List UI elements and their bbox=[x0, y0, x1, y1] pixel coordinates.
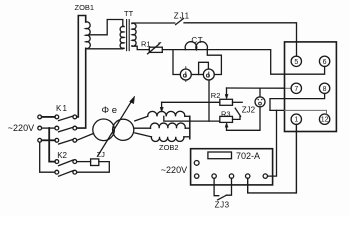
svg-text:R1: R1 bbox=[141, 40, 151, 49]
svg-text:ZJ2: ZJ2 bbox=[242, 106, 256, 115]
svg-text:R2: R2 bbox=[211, 91, 221, 100]
svg-text:~220V: ~220V bbox=[8, 123, 34, 133]
svg-text:~220V: ~220V bbox=[161, 165, 187, 175]
svg-text:ZOB1: ZOB1 bbox=[75, 3, 95, 12]
svg-text:R3: R3 bbox=[221, 110, 231, 119]
svg-text:7: 7 bbox=[294, 86, 298, 93]
svg-text:Φ e: Φ e bbox=[102, 105, 118, 116]
svg-text:5: 5 bbox=[294, 59, 298, 66]
svg-text:12: 12 bbox=[321, 117, 329, 124]
svg-text:6: 6 bbox=[323, 59, 327, 66]
svg-text:TT: TT bbox=[124, 9, 134, 18]
svg-text:ZOB2: ZOB2 bbox=[159, 143, 179, 152]
svg-text:1: 1 bbox=[294, 117, 298, 124]
svg-text:K1: K1 bbox=[56, 104, 68, 113]
svg-text:K2: K2 bbox=[57, 151, 67, 160]
svg-text:8: 8 bbox=[323, 86, 327, 93]
svg-text:ZJ3: ZJ3 bbox=[215, 201, 230, 210]
svg-text:702-A: 702-A bbox=[236, 151, 260, 161]
svg-text:CT: CT bbox=[191, 36, 203, 45]
svg-text:ZJ: ZJ bbox=[97, 150, 106, 159]
svg-text:ZJ1: ZJ1 bbox=[174, 11, 190, 20]
